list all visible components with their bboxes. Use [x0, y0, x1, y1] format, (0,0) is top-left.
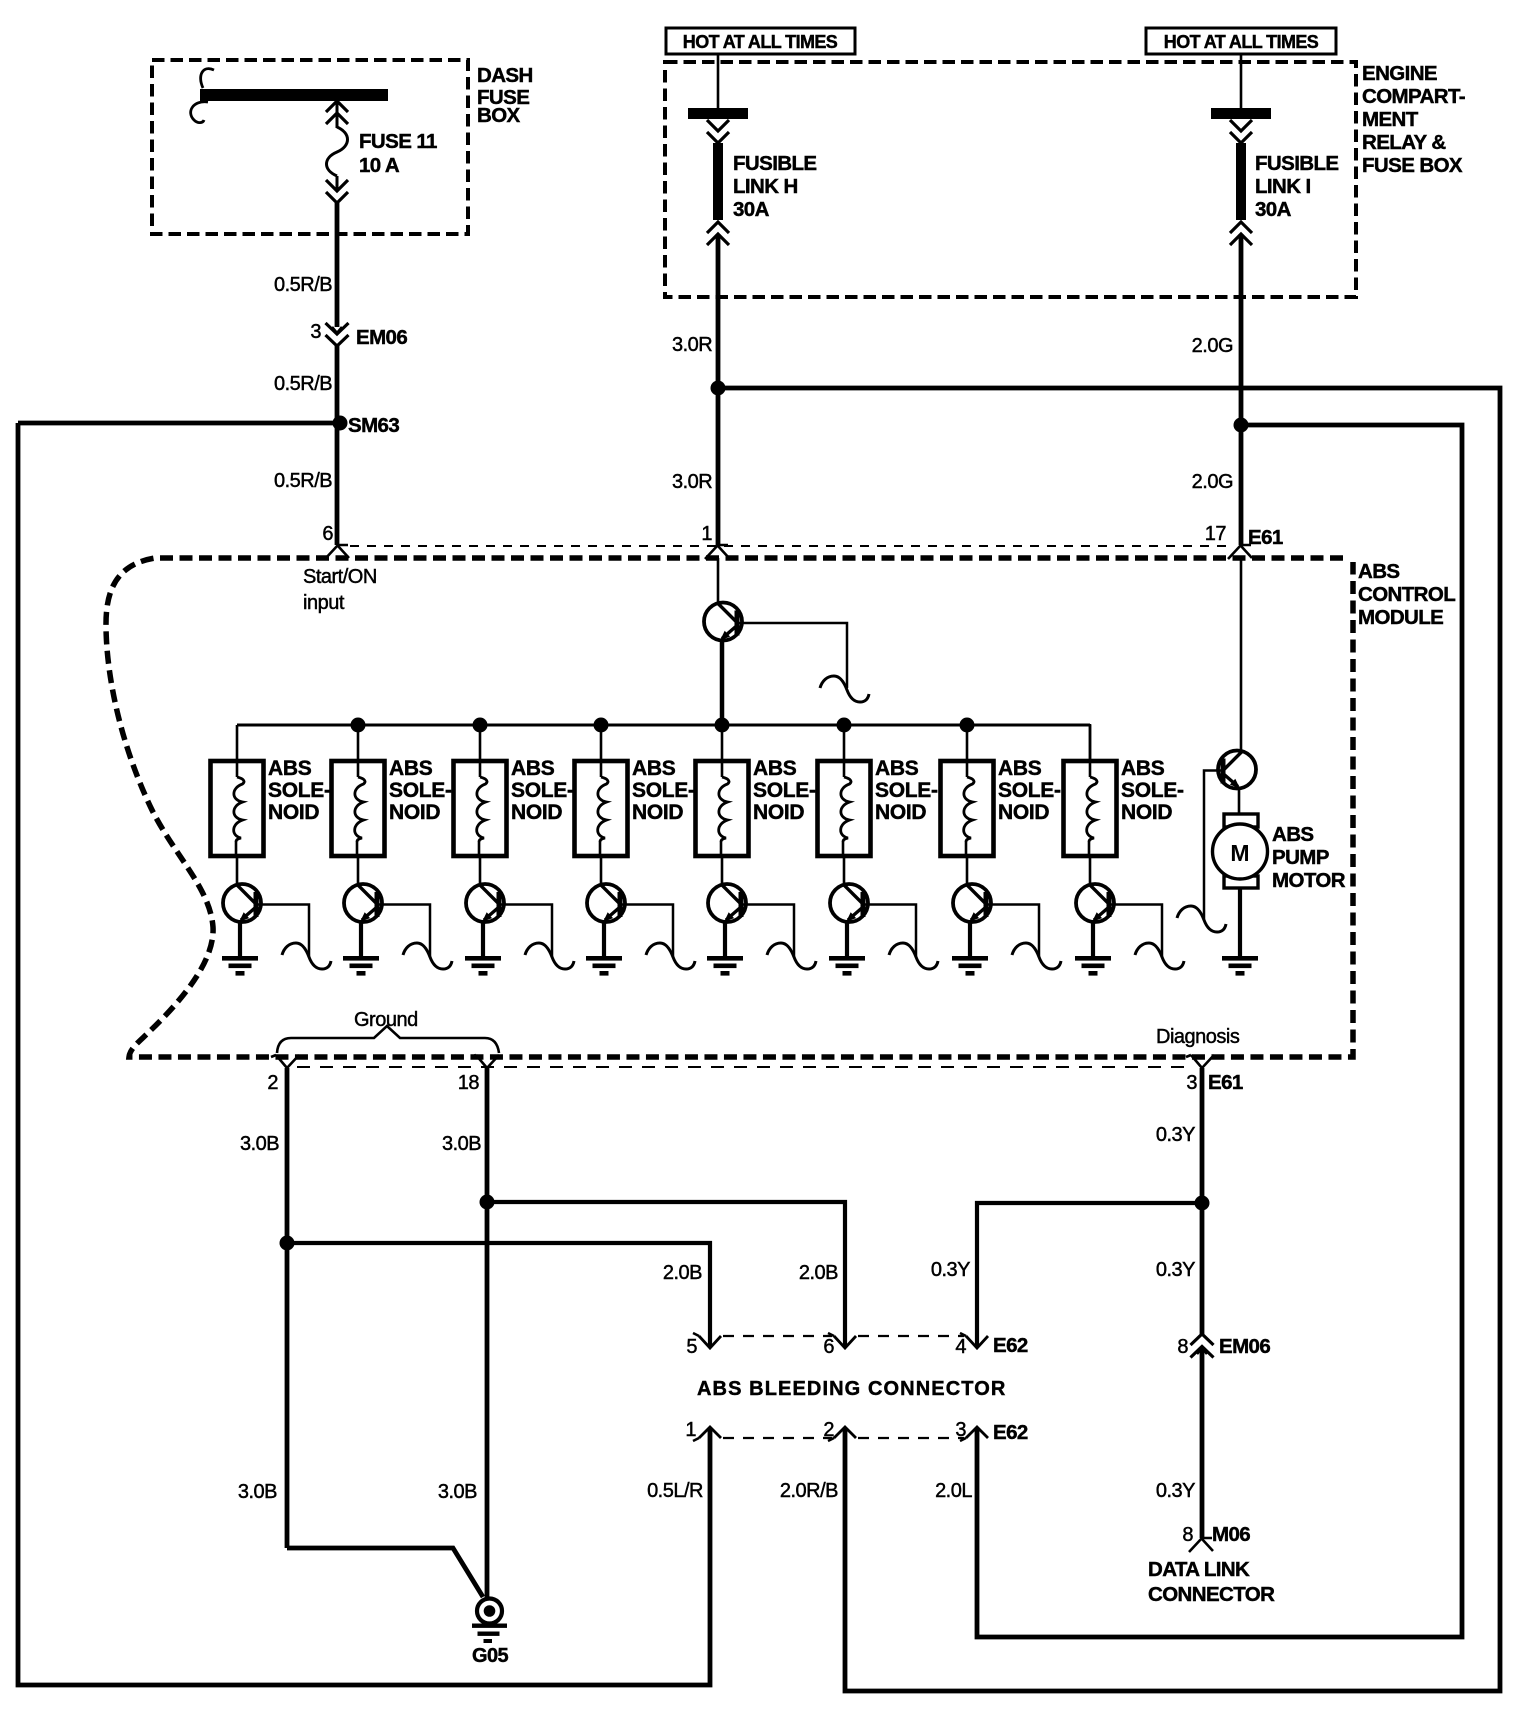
svg-text:LINK I: LINK I: [1255, 175, 1311, 198]
transistor Q3 (solenoid 2 driver): [344, 884, 382, 922]
bleeding connector dashed links (top row): [723, 1335, 832, 1337]
ABS control module boundary (dashed): [106, 558, 1353, 1057]
svg-text:2.0R/B: 2.0R/B: [780, 1480, 838, 1502]
engine compartment relay & fuse box (dashed): [665, 62, 1356, 297]
continuation squiggle (Q7 base): [889, 943, 938, 969]
wire solenoid 7 to transistor: [966, 856, 969, 886]
svg-text:17: 17: [1205, 523, 1227, 545]
wire Q6 emitter to ground: [723, 920, 727, 956]
node: junction on pin2 lead: [280, 1236, 295, 1251]
connector EM06 pin 8 (in-line): [1191, 1334, 1214, 1345]
transistor Q1 (main solenoid feed): [704, 603, 742, 641]
svg-text:SOLE-: SOLE-: [389, 779, 452, 802]
ground (solenoid 5 driver): [707, 956, 743, 976]
svg-text:E62: E62: [993, 1421, 1028, 1444]
wire Q5 emitter to ground: [602, 920, 606, 956]
svg-text:MENT: MENT: [1362, 108, 1419, 131]
Q3 base wire: [377, 905, 430, 958]
ground (solenoid 3 driver): [465, 956, 501, 976]
wire Q3 emitter to ground: [359, 920, 363, 956]
wire 2.0G link I to junction: [1239, 297, 1244, 425]
svg-text:FUSE 11: FUSE 11: [359, 130, 437, 153]
svg-text:3: 3: [310, 321, 321, 343]
svg-text:ABS: ABS: [632, 757, 676, 780]
wire EM06 to M06 0.3Y: [1200, 1348, 1205, 1538]
wire bus to solenoid 4: [600, 725, 603, 762]
fusible link H feed wire: [717, 54, 720, 108]
svg-text:SOLE-: SOLE-: [875, 779, 938, 802]
wire 2.0G junction right and down to E62 pin 3: [977, 425, 1462, 1637]
svg-text:ABS: ABS: [1272, 823, 1313, 846]
svg-text:SOLE-: SOLE-: [511, 779, 574, 802]
svg-text:M: M: [1230, 840, 1249, 866]
wire pin2 lead into ground G05: [287, 1548, 483, 1597]
svg-text:30A: 30A: [733, 198, 770, 221]
svg-text:ABS: ABS: [1358, 560, 1399, 583]
svg-text:3.0R: 3.0R: [672, 471, 712, 493]
junction SM63: [333, 416, 348, 431]
ground (solenoid 8 driver): [1075, 956, 1111, 976]
Q2 base wire: [256, 905, 309, 958]
node: junction on pin18 lead: [480, 1195, 495, 1210]
wire E61 pin3 diagnosis lead 0.3Y: [1200, 1068, 1205, 1334]
E62 pin 4: [966, 1336, 988, 1348]
svg-text:5: 5: [686, 1336, 697, 1358]
wire bus to solenoid 7: [966, 725, 969, 762]
transistor Q8 (solenoid 7 driver): [953, 884, 991, 922]
fusible link I feed wire: [1240, 54, 1243, 108]
dash fuse box (dashed): [152, 60, 468, 234]
wire solenoid 3 to transistor: [479, 856, 482, 886]
wire bus to solenoid 5: [721, 725, 724, 762]
wire fuse to EM06 connector: [335, 203, 340, 327]
node: bus junction 6: [837, 718, 852, 733]
svg-text:NOID: NOID: [632, 801, 683, 824]
svg-text:2.0G: 2.0G: [1192, 471, 1233, 493]
svg-text:0.5R/B: 0.5R/B: [274, 470, 332, 492]
wire Q1 emitter to solenoid bus: [720, 640, 725, 726]
svg-text:ABS: ABS: [753, 757, 797, 780]
fusible link I top chevrons: [1230, 120, 1252, 131]
continuation squiggle (Q10 base): [1177, 906, 1226, 932]
ABS solenoid 1: [211, 761, 264, 856]
svg-text:2.0B: 2.0B: [799, 1262, 838, 1284]
svg-text:0.3Y: 0.3Y: [1156, 1259, 1195, 1281]
svg-text:3.0R: 3.0R: [672, 334, 712, 356]
svg-text:DATA LINK: DATA LINK: [1148, 1558, 1250, 1581]
continuation squiggle (Q6 base): [767, 943, 816, 969]
transistor Q10 (pump motor driver): [1218, 751, 1256, 789]
svg-text:NOID: NOID: [998, 801, 1049, 824]
wire bus to solenoid 1: [236, 725, 239, 762]
ground (solenoid 4 driver): [586, 956, 622, 976]
svg-text:NOID: NOID: [875, 801, 926, 824]
wire solenoid 5 to transistor: [721, 856, 724, 886]
svg-text:4: 4: [955, 1336, 966, 1358]
svg-text:0.5R/B: 0.5R/B: [274, 274, 332, 296]
svg-text:3: 3: [1186, 1072, 1197, 1094]
HOT AT ALL TIMES box (left): [666, 28, 855, 54]
bus bar hook marks: [201, 69, 214, 88]
ABS bleeding connector pin 2: [834, 1427, 856, 1438]
wire 3.0R link H to junction: [716, 297, 721, 388]
svg-text:1: 1: [685, 1419, 696, 1441]
module pin 3 / E61: [1186, 1055, 1214, 1068]
svg-text:2.0G: 2.0G: [1192, 335, 1233, 357]
svg-text:ABS: ABS: [511, 757, 555, 780]
wire solenoid 1 to transistor: [236, 856, 239, 886]
svg-text:MOTOR: MOTOR: [1272, 869, 1346, 892]
Q10 base wire: [1204, 771, 1223, 921]
HOT AT ALL TIMES box (right): [1146, 28, 1336, 54]
svg-text:COMPART-: COMPART-: [1362, 85, 1465, 108]
connector face thin dashed line (bottom): [297, 1066, 1190, 1068]
wire 3.0R junction down to module pin 1: [716, 388, 721, 545]
svg-text:2: 2: [267, 1072, 278, 1094]
fusible link H top chevrons: [707, 120, 729, 131]
ABS bleeding connector pin 1: [699, 1427, 721, 1438]
svg-text:input: input: [303, 592, 345, 614]
wire module pin 1 to main transistor: [717, 558, 720, 605]
svg-text:FUSIBLE: FUSIBLE: [733, 152, 817, 175]
ABS solenoid 7: [941, 761, 994, 856]
ground (pump motor): [1222, 956, 1258, 976]
svg-text:SOLE-: SOLE-: [268, 779, 331, 802]
svg-text:ABS: ABS: [268, 757, 312, 780]
svg-text:0.5R/B: 0.5R/B: [274, 373, 332, 395]
svg-text:6: 6: [823, 1336, 834, 1358]
svg-text:PUMP: PUMP: [1272, 846, 1329, 869]
svg-text:E61: E61: [1248, 526, 1283, 549]
wire pin 2 ground lead 3.0B: [285, 1068, 290, 1548]
node: bus junction 3: [473, 718, 488, 733]
wire Q7 emitter to ground: [845, 920, 849, 956]
ABS solenoid 6: [818, 761, 871, 856]
wire Q9 emitter to ground: [1091, 920, 1095, 956]
wire motor to ground: [1238, 888, 1242, 956]
svg-text:18: 18: [458, 1072, 480, 1094]
node: diagnosis junction: [1195, 1196, 1210, 1211]
svg-text:FUSIBLE: FUSIBLE: [1255, 152, 1339, 175]
ABS solenoid 4: [575, 761, 628, 856]
ground (solenoid 6 driver): [829, 956, 865, 976]
wire Q8 emitter to ground: [968, 920, 972, 956]
svg-text:RELAY &: RELAY &: [1362, 131, 1446, 154]
svg-text:10 A: 10 A: [359, 154, 400, 177]
Q7 base wire: [863, 905, 916, 958]
ground (solenoid 2 driver): [343, 956, 379, 976]
svg-text:0.5L/R: 0.5L/R: [647, 1480, 703, 1502]
Q4 base wire: [499, 905, 552, 958]
svg-text:3.0B: 3.0B: [442, 1133, 481, 1155]
continuation squiggle (Q3 base): [403, 943, 452, 969]
continuation squiggle (Q8 base): [1012, 943, 1061, 969]
svg-text:SOLE-: SOLE-: [1121, 779, 1184, 802]
connector M06 pin 8: [1189, 1538, 1213, 1552]
wire bus to solenoid 6: [843, 725, 846, 762]
svg-text:E61: E61: [1208, 1071, 1243, 1094]
module pin 18: [471, 1055, 499, 1068]
ABS solenoid 8: [1064, 761, 1117, 856]
svg-text:Start/ON: Start/ON: [303, 566, 377, 588]
transistor Q9 (solenoid 8 driver): [1076, 884, 1114, 922]
ground (solenoid 1 driver): [222, 956, 258, 976]
svg-text:E62: E62: [993, 1334, 1028, 1357]
transistor Q4 (solenoid 3 driver): [466, 884, 504, 922]
node: bus junction 2: [351, 718, 366, 733]
svg-text:3.0B: 3.0B: [240, 1133, 279, 1155]
continuation squiggle (Q5 base): [646, 943, 695, 969]
transistor Q5 (solenoid 4 driver): [587, 884, 625, 922]
svg-text:DASH: DASH: [477, 64, 533, 87]
svg-text:0.3Y: 0.3Y: [1156, 1480, 1195, 1502]
wire solenoid 2 to transistor: [357, 856, 360, 886]
wire junction to bleeding connector pin 5: [287, 1243, 710, 1346]
node: bus junction 7: [960, 718, 975, 733]
svg-text:SM63: SM63: [348, 414, 399, 437]
svg-text:2.0L: 2.0L: [935, 1480, 972, 1502]
svg-text:SOLE-: SOLE-: [998, 779, 1061, 802]
svg-text:NOID: NOID: [753, 801, 804, 824]
svg-text:1: 1: [701, 523, 712, 545]
wire fusible link H down: [716, 234, 721, 297]
svg-text:8: 8: [1177, 1336, 1188, 1358]
wire Q10 emitter to motor: [1238, 787, 1241, 814]
svg-text:LINK H: LINK H: [733, 175, 798, 198]
continuation squiggle (Q9 base): [1135, 943, 1184, 969]
svg-text:NOID: NOID: [389, 801, 440, 824]
svg-text:ABS: ABS: [389, 757, 433, 780]
fusible link I bottom chevrons: [1230, 222, 1252, 233]
svg-text:HOT AT ALL TIMES: HOT AT ALL TIMES: [683, 32, 838, 52]
node: bus junction 4: [594, 718, 609, 733]
ABS bleeding connector pin 6: [834, 1336, 856, 1348]
svg-text:0.3Y: 0.3Y: [931, 1259, 970, 1281]
svg-text:8: 8: [1182, 1524, 1193, 1546]
solenoid supply bus: [237, 724, 1090, 727]
Q6 base wire: [741, 905, 794, 958]
node: bus junction 5: [715, 718, 730, 733]
ABS solenoid 2: [332, 761, 385, 856]
ABS solenoid 5: [696, 761, 749, 856]
ground G05: [477, 1599, 502, 1624]
Q1 base wire to internal circuit: [737, 623, 847, 688]
svg-text:G05: G05: [472, 1645, 508, 1667]
fusible link H bus bar: [688, 108, 748, 119]
ABS pump motor M: [1224, 814, 1258, 827]
ABS bleeding connector pin 5: [699, 1336, 721, 1348]
continuation squiggle (Q4 base): [525, 943, 574, 969]
wire SM63 down to module pin 6: [335, 423, 340, 545]
wire fusible link I down: [1239, 234, 1244, 297]
continuation squiggle (Q1 base): [820, 676, 869, 702]
svg-text:0.3Y: 0.3Y: [1156, 1124, 1195, 1146]
svg-text:SOLE-: SOLE-: [632, 779, 695, 802]
fusible link I bus bar: [1211, 108, 1271, 119]
svg-text:CONTROL: CONTROL: [1358, 583, 1455, 606]
svg-text:BOX: BOX: [477, 104, 521, 127]
fusible link I element bar: [1236, 143, 1246, 220]
connector EM06 pin 3: [326, 323, 349, 334]
wire bus to solenoid 3: [479, 725, 482, 762]
Q9 base wire: [1109, 905, 1162, 958]
svg-text:3.0B: 3.0B: [238, 1481, 277, 1503]
E62 pin 3: [966, 1427, 988, 1438]
node: 2.0G junction: [1234, 418, 1249, 433]
module pin 2: [271, 1055, 299, 1068]
fusible link H element bar: [713, 143, 723, 220]
connector face thin dashed line (top): [350, 545, 1230, 547]
transistor Q6 (solenoid 5 driver): [708, 884, 746, 922]
wire pin 18 ground lead 3.0B: [485, 1068, 490, 1599]
wire module pin 17 to pump motor transistor: [1240, 558, 1243, 752]
wire solenoid 6 to transistor: [843, 856, 846, 886]
svg-text:ABS BLEEDING CONNECTOR: ABS BLEEDING CONNECTOR: [697, 1378, 1006, 1400]
wire solenoid 4 to transistor: [600, 856, 603, 886]
wire EM06 to SM63: [335, 346, 340, 423]
svg-text:ABS: ABS: [875, 757, 919, 780]
svg-text:3.0B: 3.0B: [438, 1481, 477, 1503]
svg-text:6: 6: [322, 523, 333, 545]
svg-text:EM06: EM06: [356, 326, 407, 349]
wire bus to solenoid 2: [357, 725, 360, 762]
wire Q2 emitter to ground: [238, 920, 242, 956]
ABS solenoid 3: [454, 761, 507, 856]
continuation squiggle (Q2 base): [282, 943, 331, 969]
svg-text:HOT AT ALL TIMES: HOT AT ALL TIMES: [1164, 32, 1319, 52]
svg-text:NOID: NOID: [511, 801, 562, 824]
wire junction to bleeding connector pin 6: [487, 1202, 845, 1346]
svg-text:30A: 30A: [1255, 198, 1292, 221]
bleeding connector dashed links (bottom row): [723, 1437, 832, 1439]
svg-text:EM06: EM06: [1219, 1335, 1270, 1358]
Q8 base wire: [986, 905, 1039, 958]
svg-text:CONNECTOR: CONNECTOR: [1148, 1583, 1275, 1606]
fusible link H bottom chevrons: [707, 222, 729, 233]
transistor Q2 (solenoid 1 driver): [223, 884, 261, 922]
svg-text:NOID: NOID: [268, 801, 319, 824]
wire SM63 branch to left frame: [18, 421, 340, 426]
svg-text:SOLE-: SOLE-: [753, 779, 816, 802]
wire bus to solenoid 8: [1089, 725, 1092, 762]
svg-text:M06: M06: [1212, 1523, 1250, 1546]
svg-text:Diagnosis: Diagnosis: [1156, 1026, 1240, 1048]
svg-text:2.0B: 2.0B: [663, 1262, 702, 1284]
svg-text:MODULE: MODULE: [1358, 606, 1443, 629]
transistor Q7 (solenoid 6 driver): [830, 884, 868, 922]
svg-text:ENGINE: ENGINE: [1362, 62, 1437, 85]
wire 3.0R junction to right edge and down to bleeding connector pin 2: [718, 388, 1500, 1691]
svg-text:ABS: ABS: [1121, 757, 1165, 780]
wire junction to E62 pin 4: [977, 1203, 1202, 1346]
wire solenoid 8 to transistor: [1089, 856, 1092, 886]
svg-text:NOID: NOID: [1121, 801, 1172, 824]
svg-text:FUSE BOX: FUSE BOX: [1362, 154, 1463, 177]
svg-text:ABS: ABS: [998, 757, 1042, 780]
ground (solenoid 7 driver): [952, 956, 988, 976]
Q5 base wire: [620, 905, 673, 958]
wire Q4 emitter to ground: [481, 920, 485, 956]
wire 2.0G junction down to module pin 17: [1239, 425, 1244, 545]
fuse F11 symbol: [326, 101, 348, 112]
fuse box bus bar: [200, 89, 388, 101]
node: 3.0R junction: [711, 381, 726, 396]
wire bleeding pin1 0.5L/R to left frame: [18, 423, 710, 1685]
